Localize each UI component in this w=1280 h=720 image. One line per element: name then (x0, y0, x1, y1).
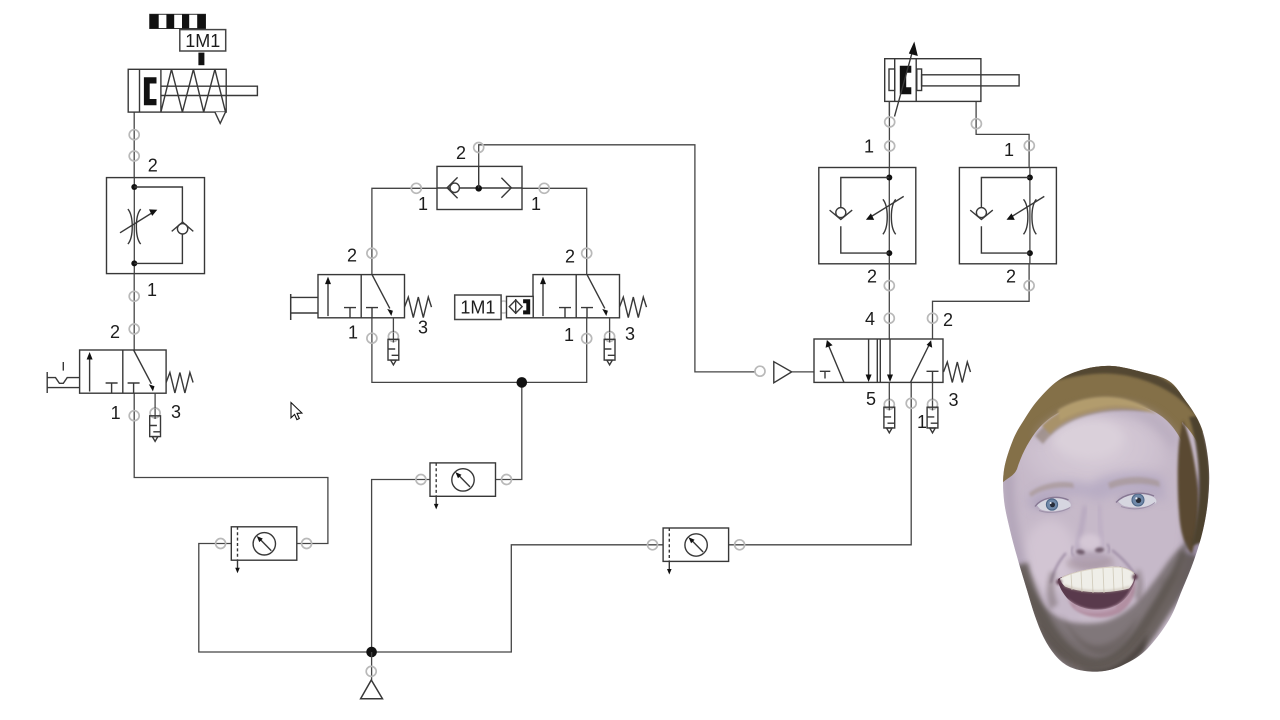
svg-text:1: 1 (111, 403, 121, 423)
sensor stub below 1M1 box (198, 53, 204, 66)
wire: supply stem (371, 652, 373, 680)
wire: 1S1 port 2 up to shuttle valve (372, 188, 437, 274)
nose wings (1072, 546, 1074, 556)
node: circle below 1S2 port 1 (582, 334, 592, 344)
wire: valve 1V3 port 1 down to service unit 0Z1 (134, 393, 328, 543)
node: link circle between 1M1 label and sensor (498, 301, 510, 313)
label box 1M1 (at cylinder) (180, 30, 226, 51)
node: circle at 0Z3 right port (735, 540, 745, 550)
eye right socket shade (1118, 494, 1154, 508)
node: circle above compressed air source (366, 666, 376, 676)
svg-text:5: 5 (866, 389, 876, 409)
node: circle at 0Z3 left port (648, 540, 658, 550)
junction: supply node (366, 647, 377, 658)
valve 1S1 (3/2 pushbutton) body (318, 275, 432, 318)
hair dark top-left edge (1000, 365, 1081, 470)
svg-text:1: 1 (864, 137, 874, 157)
silencer on 1S1 port 3 (388, 332, 399, 365)
nose bridge shading (1077, 506, 1085, 550)
wire: port 3 stub (932, 382, 934, 399)
eye right iris (1132, 494, 1145, 507)
flow control valve 1V1 (left) (107, 178, 205, 274)
wire: pilot triangle to 5/2 valve (792, 371, 814, 373)
actuator: idle-return roller of 1V3 (47, 362, 79, 393)
node: circle above 1S2 port 2 (582, 248, 592, 258)
svg-text:2: 2 (110, 322, 120, 342)
beard chin dark rim (1038, 625, 1148, 674)
flow control valve 2V2 (959, 168, 1056, 264)
node: circle on 5/2 port 1 wire (906, 398, 916, 408)
nostrils (1076, 549, 1086, 555)
svg-text:2: 2 (1006, 267, 1016, 287)
right side shadow (1172, 470, 1209, 614)
valve 1V3 (far left 3/2, idle-return roller) body (80, 350, 194, 393)
eye left socket shade (1036, 498, 1070, 512)
service unit 0Z2 (430, 463, 496, 510)
flow control valve 2V1 (819, 168, 916, 264)
skin base (995, 360, 1217, 676)
svg-text:1: 1 (348, 323, 358, 343)
wire: 1S1 port3 stub (392, 318, 394, 332)
beard jaw band (1018, 554, 1190, 668)
svg-text:2: 2 (867, 267, 877, 287)
wire: 0Z2 right port up to middle junction (496, 382, 522, 479)
hair highlight sweep 2 (1058, 397, 1151, 421)
svg-text:1: 1 (564, 325, 574, 345)
stubble veil lower face (1020, 565, 1186, 670)
svg-text:1M1: 1M1 (460, 298, 495, 318)
node: circles on 2V2-2 wire (1024, 281, 1034, 291)
lip shine (1075, 607, 1116, 612)
shuttle valve 1V1m (437, 166, 522, 209)
wire: shuttle valve out to 5/2 pilot (479, 145, 756, 372)
distance rule above 1A (150, 14, 206, 28)
junction: middle bus node (517, 377, 528, 388)
node: circle at 0Z2 right port (502, 475, 512, 485)
node: connection circles on 1V1-1V3 wire (129, 291, 139, 301)
mouth interior (1058, 566, 1136, 609)
svg-text:1M1: 1M1 (185, 31, 220, 51)
service unit 0Z3 (663, 528, 729, 575)
forehead highlight (1023, 406, 1167, 498)
wire: flow control 1V1 to valve 1V3 (133, 274, 135, 350)
node: circle at shuttle left port (411, 183, 421, 193)
svg-text:2: 2 (565, 247, 575, 267)
lower lip (1067, 579, 1135, 618)
node: connection circles on 1A-1V1 wire (129, 130, 139, 140)
tooth gaps (1071, 567, 1123, 593)
node: circle at 0Z1 right port (302, 539, 312, 549)
hair right sideburn (1178, 420, 1199, 554)
eye left white (1037, 498, 1071, 511)
hairline shadow (1036, 402, 1179, 452)
hair dark crown (1040, 363, 1203, 422)
actuator: plunger of 1S1 (291, 294, 318, 320)
chin highlight (1079, 609, 1115, 627)
eye right white (1118, 494, 1156, 507)
svg-text:1: 1 (418, 194, 428, 214)
node: circle on 2A right port wire (971, 119, 981, 129)
svg-text:3: 3 (171, 402, 181, 422)
svg-text:3: 3 (948, 390, 958, 410)
hair right dark edge (1189, 416, 1210, 546)
hair main (996, 358, 1214, 486)
svg-text:3: 3 (625, 324, 635, 344)
svg-text:1: 1 (917, 412, 927, 432)
hair highlight sweep 1 (1042, 401, 1157, 434)
node: circle at 0Z1 left port (216, 539, 226, 549)
wire: supply junction right to service unit 0Z3 (372, 545, 663, 652)
eye left lids (1035, 497, 1069, 506)
svg-text:2: 2 (148, 156, 158, 176)
svg-text:2: 2 (943, 310, 953, 330)
node: circle on shuttle out wire (474, 143, 484, 153)
eyebrow right (1108, 477, 1160, 489)
teeth bottom edge (1064, 586, 1130, 592)
svg-text:3: 3 (418, 318, 428, 338)
wire: service unit 0Z1 left port to supply junction (199, 544, 372, 653)
eyebrow left (1029, 482, 1074, 497)
svg-text:4: 4 (865, 309, 875, 329)
wire: 2A left port to flow control 2V1 (888, 101, 890, 167)
service unit 0Z1 (231, 527, 296, 574)
left edge shading (1003, 470, 1027, 570)
wire: 2V1 port 2 down to 5/2 port 4 (888, 264, 890, 339)
teeth (1060, 566, 1135, 592)
compressed air source 0Z (361, 680, 383, 699)
wire: supply junction to service unit 0Z2 and up to middle circuit (372, 480, 430, 653)
beard upper-lip join right (1134, 570, 1143, 602)
node: circle above 1S1 port 2 (367, 248, 377, 258)
chin stubble patch (1062, 614, 1138, 654)
silencer on 5/2 port 5 (884, 399, 895, 432)
eye left iris (1046, 499, 1058, 511)
mustache stubble (1066, 556, 1115, 571)
beard upper-lip join left (1047, 572, 1058, 610)
pilot triangle of 1V2 (774, 362, 792, 383)
wire: port 5 stub (888, 382, 890, 399)
wire: 1S2 port3 stub (609, 318, 611, 332)
node: circle below 1S1 port 1 (367, 333, 377, 343)
valve 1V2 (5/2 pneumatic/spring) (814, 339, 971, 383)
beard full fill (1020, 540, 1189, 668)
wire: cylinder 1A to flow control 1V1 (133, 112, 135, 178)
wire: 1S2 port 2 up to shuttle valve (522, 188, 587, 274)
mouth corner darks (1056, 579, 1062, 585)
sensor actuator box of 1S2 (507, 296, 534, 317)
svg-text:1: 1 (1004, 140, 1014, 160)
node: circles on 2V1-4 wire (884, 281, 894, 291)
mouse cursor (291, 403, 302, 420)
svg-text:1: 1 (147, 280, 157, 300)
silencer on 5/2 port 3 (927, 399, 938, 432)
node: circle before pilot triangle (755, 366, 765, 376)
face photo cutout (995, 358, 1217, 676)
valve 1S2 (3/2 with proximity sensor) body (533, 275, 647, 318)
left cheek highlight (1024, 520, 1076, 592)
node: circle at 0Z2 left port (416, 475, 426, 485)
under nose shadow (1070, 552, 1110, 568)
silencer on 1V3 port 3 (150, 408, 161, 441)
wire: middle valves port 1 bus (372, 318, 587, 383)
wire: 1V3 port3 stub (154, 393, 156, 408)
cylinder 2A (double-acting) (885, 42, 1029, 168)
node: circle below 1V3 port 1 (129, 411, 139, 421)
node: circle at shuttle right port (539, 183, 549, 193)
eye right lids (1116, 493, 1154, 502)
wire: 2V2 port 2 down to 5/2 port 2 (933, 264, 1030, 339)
nasolabial crease left (1051, 553, 1066, 583)
svg-text:2: 2 (456, 143, 466, 163)
brow ridge shadow (1026, 472, 1166, 512)
svg-text:1: 1 (531, 194, 541, 214)
hair shadow under fringe (1035, 404, 1148, 444)
svg-text:2: 2 (347, 246, 357, 266)
node: circles on 2A left port wire (885, 117, 895, 127)
wire: 0Z3 right port to 5/2 valve port 1 (729, 382, 912, 544)
silencer on 1S2 port 3 (604, 332, 615, 365)
teeth top gum line (1062, 567, 1134, 578)
nasolabial crease right (1112, 550, 1136, 577)
label box 1M1 (sensor) (455, 295, 501, 320)
nose tip highlight (1079, 534, 1101, 550)
cylinder 1A (single-acting with spring) (128, 69, 257, 123)
